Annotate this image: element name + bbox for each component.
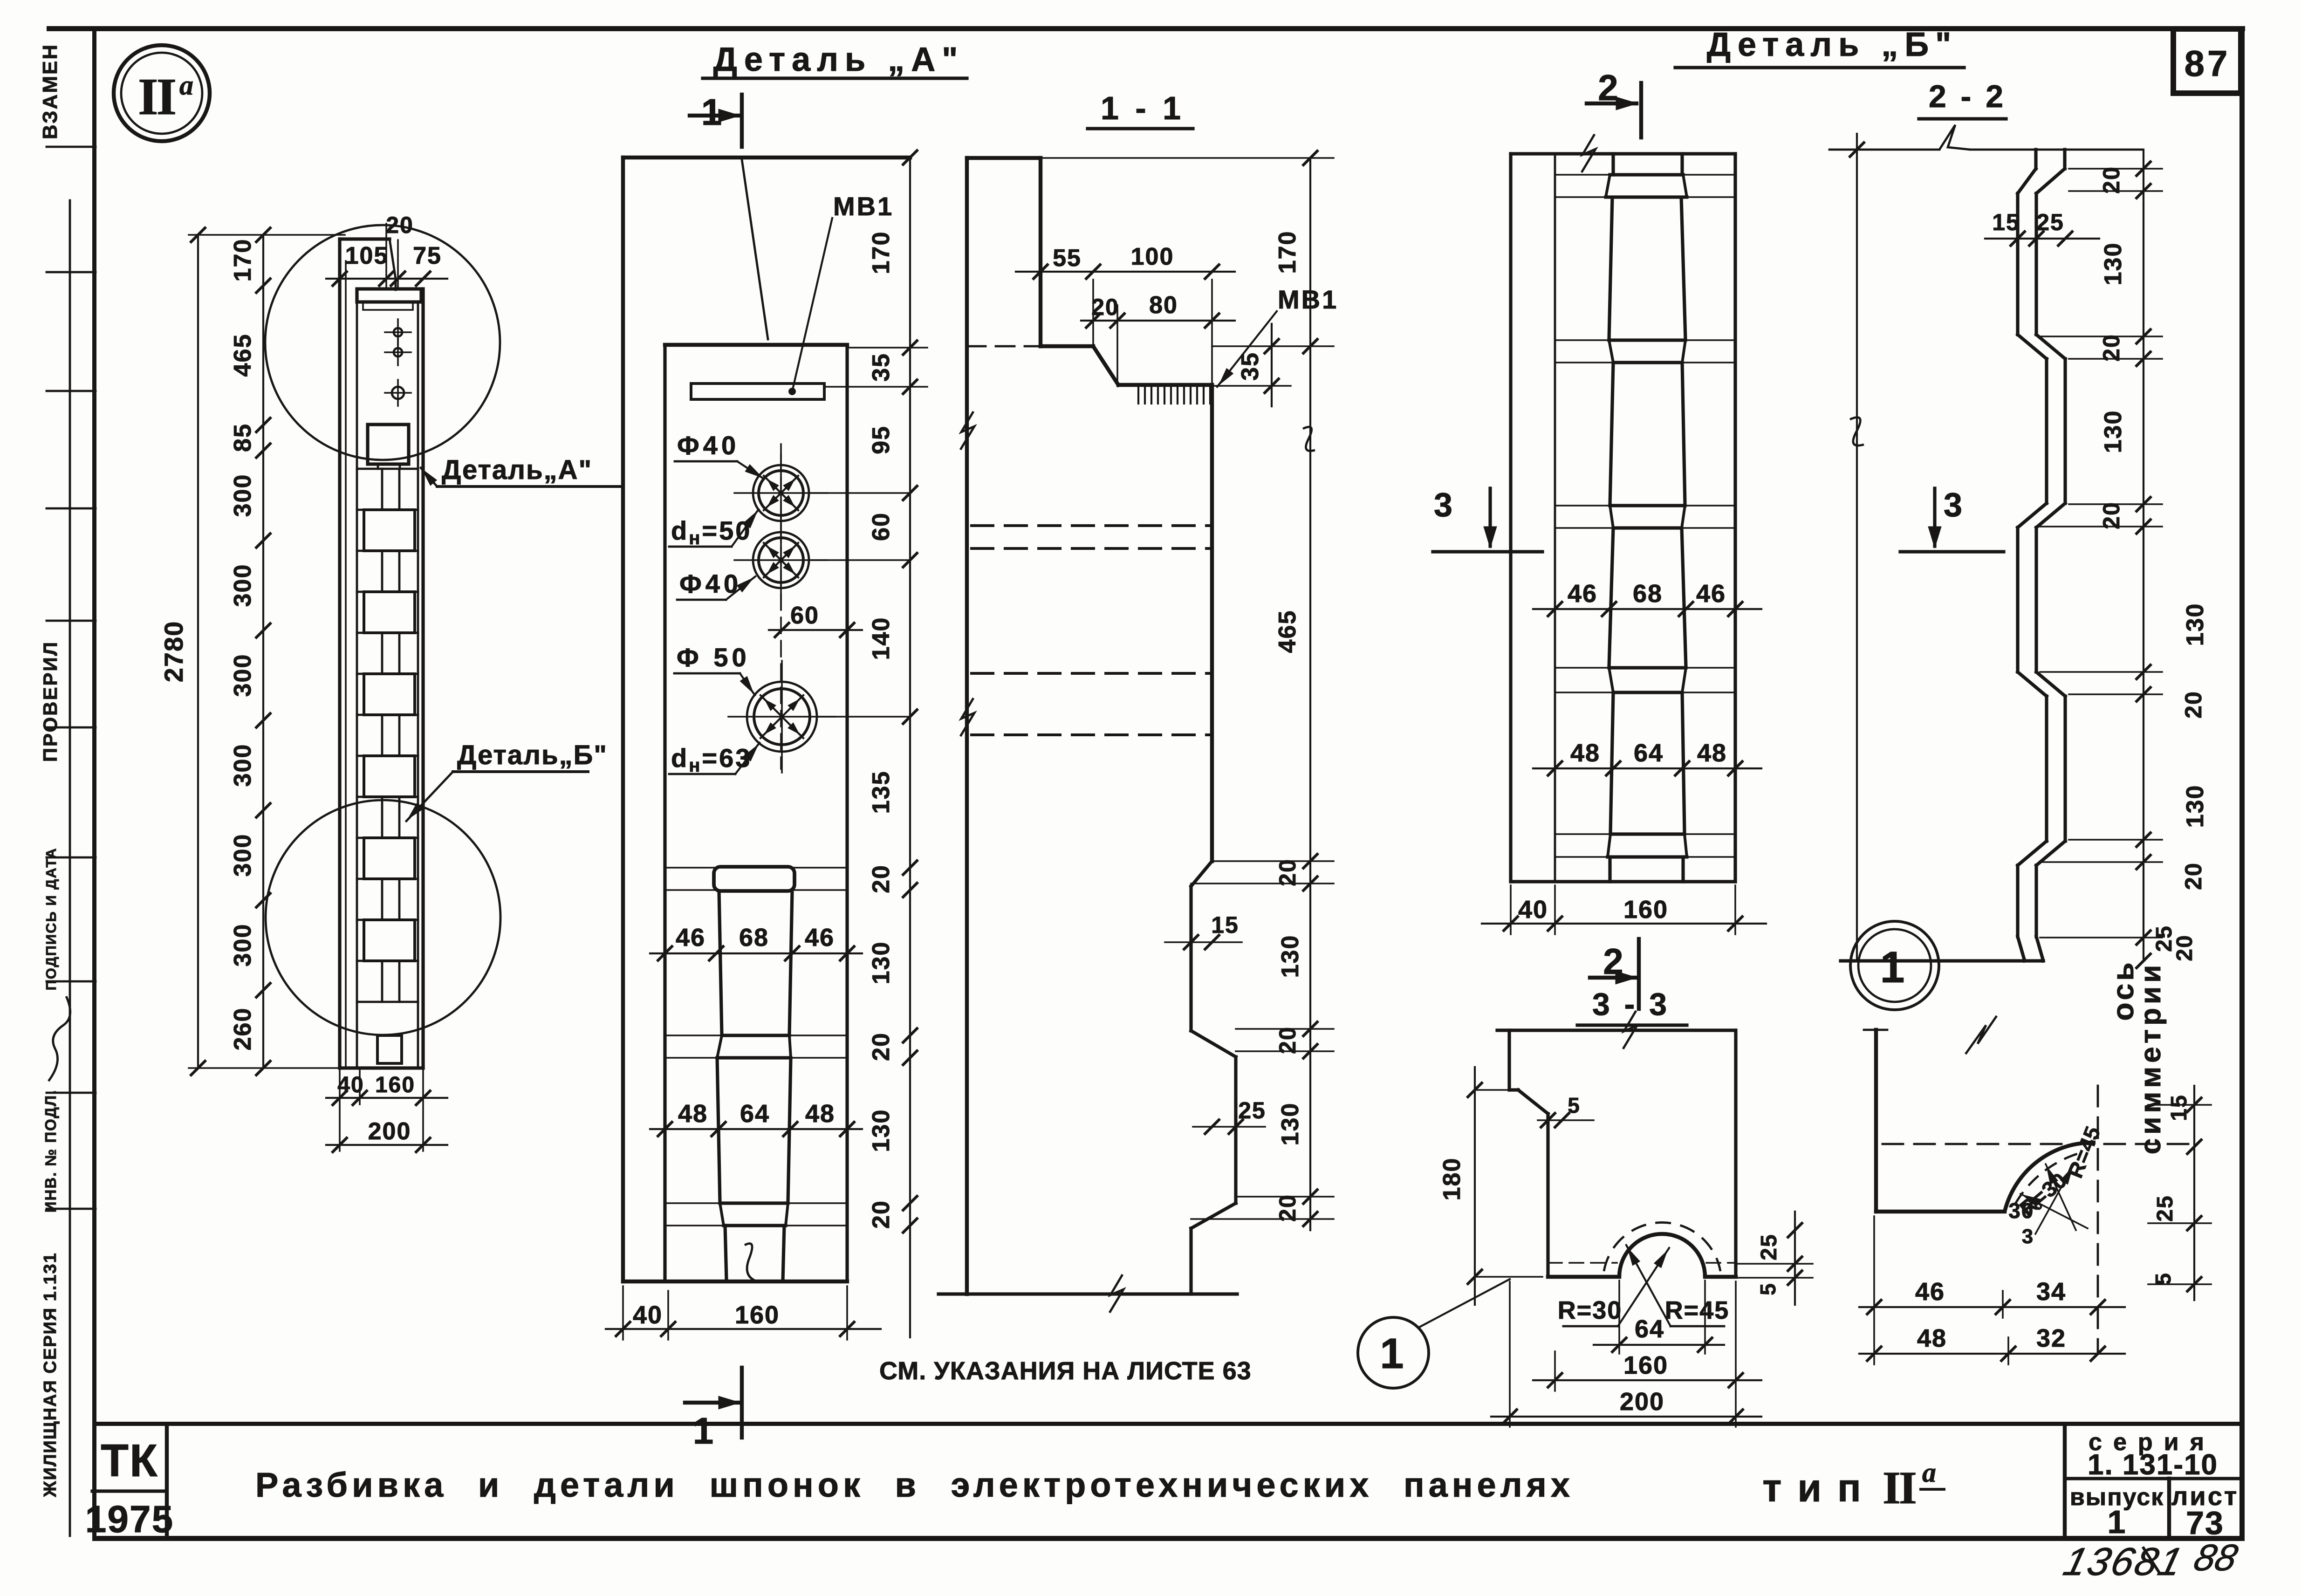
sheet number box 87 <box>2173 29 2241 93</box>
svg-text:МВ1: МВ1 <box>833 192 894 221</box>
svg-text:73: 73 <box>2186 1505 2224 1541</box>
svg-text:2: 2 <box>1603 941 1624 982</box>
svg-text:20: 20 <box>2180 862 2206 890</box>
holes centerline <box>780 454 782 769</box>
svg-text:20: 20 <box>2098 334 2124 362</box>
dim 35 <box>1271 324 1273 406</box>
svg-text:5: 5 <box>2151 1272 2175 1285</box>
svg-text:1975: 1975 <box>85 1498 174 1541</box>
svg-text:180: 180 <box>1438 1158 1466 1201</box>
svg-text:25: 25 <box>2036 209 2064 235</box>
section 1-1 outline <box>965 158 969 1294</box>
svg-text:46: 46 <box>805 924 835 952</box>
bolt holes <box>394 328 402 336</box>
section mark 2 top <box>1587 102 1637 105</box>
zigzag mark <box>1965 1016 1997 1054</box>
svg-text:130: 130 <box>2182 603 2209 646</box>
svg-text:130: 130 <box>1277 1103 1304 1146</box>
profile dims 15 25 <box>1165 941 1242 943</box>
svg-text:Деталь„А": Деталь„А" <box>442 455 592 485</box>
svg-text:35: 35 <box>868 353 895 382</box>
svg-text:300: 300 <box>229 564 256 607</box>
svg-text:34: 34 <box>2036 1278 2066 1306</box>
key top block <box>368 425 409 464</box>
Detail B key chain <box>1555 174 1735 176</box>
svg-text:13681: 13681 <box>2059 1540 2188 1584</box>
svg-text:48: 48 <box>1697 739 1727 767</box>
Detail B outline <box>1509 154 1512 882</box>
dims top 105 20 75 <box>326 278 447 280</box>
svg-text:130: 130 <box>868 941 895 985</box>
svg-text:200: 200 <box>368 1118 411 1145</box>
svg-text:1: 1 <box>701 91 723 133</box>
svg-text:40: 40 <box>633 1301 663 1329</box>
svg-text:20: 20 <box>2172 934 2197 961</box>
svg-text:64: 64 <box>1635 1315 1664 1343</box>
right dim chain Detail A <box>909 158 911 1337</box>
detail callout circle A <box>265 225 500 460</box>
svg-text:300: 300 <box>229 834 256 877</box>
hidden dashed lines <box>972 524 1212 527</box>
circled 1 (double ring) <box>1850 921 1939 1010</box>
svg-text:135: 135 <box>868 771 895 814</box>
left margin form strip <box>69 200 71 1536</box>
detail callout circle B <box>266 800 500 1035</box>
svg-text:170: 170 <box>229 239 256 282</box>
panel top key cap <box>357 289 421 302</box>
svg-text:300: 300 <box>229 474 256 517</box>
svg-text:55: 55 <box>1053 245 1082 272</box>
series box <box>2063 1424 2067 1538</box>
svg-text:3: 3 <box>1434 486 1453 524</box>
corner detail outline <box>1864 1029 1887 1031</box>
svg-text:80: 80 <box>1149 292 1178 319</box>
keyed edge profile 2-2 <box>2034 150 2037 169</box>
dims bottom 40 160 200 <box>326 1097 447 1099</box>
svg-text:170: 170 <box>868 231 895 274</box>
svg-text:46: 46 <box>676 924 705 952</box>
svg-text:260: 260 <box>229 1007 256 1051</box>
marker circle IIa <box>114 45 210 141</box>
svg-text:130: 130 <box>1277 935 1304 978</box>
svg-text:15: 15 <box>2167 1094 2191 1121</box>
svg-text:87: 87 <box>2185 43 2231 84</box>
svg-text:1 - 1: 1 - 1 <box>1101 90 1185 126</box>
svg-text:1: 1 <box>693 1410 715 1452</box>
svg-text:ТК: ТК <box>101 1435 158 1486</box>
svg-text:20: 20 <box>868 864 895 893</box>
svg-text:Деталь „А": Деталь „А" <box>713 41 965 78</box>
overall dim 2780 <box>197 235 199 1068</box>
svg-text:20: 20 <box>1274 858 1301 886</box>
dims 55 100 <box>1016 271 1235 273</box>
svg-text:II: II <box>138 68 175 126</box>
svg-text:68: 68 <box>1633 580 1663 608</box>
svg-text:48: 48 <box>805 1100 835 1128</box>
svg-text:46: 46 <box>1915 1278 1945 1306</box>
svg-text:Ф40: Ф40 <box>677 431 740 460</box>
svg-text:46: 46 <box>1696 580 1726 608</box>
Detail A outline <box>621 158 625 1281</box>
left extension line <box>1856 134 1858 961</box>
svg-text:a: a <box>179 70 193 101</box>
svg-text:160: 160 <box>735 1301 780 1329</box>
svg-text:3: 3 <box>1944 486 1963 524</box>
svg-text:48: 48 <box>1570 739 1600 767</box>
ext lines to chain <box>1212 860 1334 862</box>
svg-text:20: 20 <box>2098 501 2124 529</box>
svg-text:85: 85 <box>229 423 256 452</box>
svg-text:ПОДПИСЬ И ДАТА: ПОДПИСЬ И ДАТА <box>43 847 59 990</box>
svg-text:130: 130 <box>868 1109 895 1152</box>
callout circle 1 <box>1358 1317 1429 1388</box>
right dim chain 2-2 <box>2143 150 2144 961</box>
svg-text:170: 170 <box>1274 231 1301 274</box>
svg-text:R=30: R=30 <box>1558 1296 1623 1324</box>
svg-text:75: 75 <box>413 242 442 269</box>
svg-text:160: 160 <box>1623 1351 1668 1379</box>
svg-text:СМ. УКАЗАНИЯ НА ЛИСТЕ 63: СМ. УКАЗАНИЯ НА ЛИСТЕ 63 <box>879 1357 1252 1385</box>
dims 46 34 / 48 32 <box>1859 1306 2125 1308</box>
svg-text:48: 48 <box>1917 1324 1947 1352</box>
svg-text:a: a <box>1922 1457 1936 1488</box>
sheet frame <box>47 26 2245 31</box>
svg-text:160: 160 <box>375 1073 415 1097</box>
svg-text:48: 48 <box>678 1100 708 1128</box>
svg-text:200: 200 <box>1620 1388 1664 1416</box>
svg-text:25: 25 <box>1757 1233 1781 1260</box>
svg-text:20: 20 <box>2098 166 2124 194</box>
svg-text:46: 46 <box>1568 580 1597 608</box>
hole center extension lines <box>811 492 910 494</box>
section 3-3 outline <box>1497 1028 1735 1032</box>
svg-text:35: 35 <box>1237 352 1264 381</box>
svg-text:1: 1 <box>2108 1504 2127 1540</box>
svg-text:20: 20 <box>1274 1194 1301 1222</box>
svg-text:симметрии: симметрии <box>2135 961 2167 1154</box>
svg-text:300: 300 <box>229 654 256 697</box>
section mark 1 bottom <box>740 1368 744 1438</box>
svg-text:32: 32 <box>2036 1324 2066 1352</box>
svg-text:140: 140 <box>868 617 895 660</box>
svg-text:Разбивка и детали шпонок в: Разбивка и детали шпонок в электротехнич… <box>255 1466 1574 1504</box>
svg-text:130: 130 <box>2182 785 2209 828</box>
svg-text:3: 3 <box>2022 1225 2034 1248</box>
handwritten numbers <box>2059 1540 2188 1584</box>
svg-text:Деталь „Б": Деталь „Б" <box>1707 26 1958 63</box>
svg-text:dн=50: dн=50 <box>671 516 752 548</box>
svg-text:ВЗАМЕН: ВЗАМЕН <box>39 43 62 139</box>
svg-text:20: 20 <box>868 1200 895 1229</box>
svg-text:40: 40 <box>1518 896 1548 924</box>
svg-text:1: 1 <box>1880 943 1906 992</box>
svg-text:95: 95 <box>868 425 895 454</box>
svg-text:ИНВ. № ПОДЛ.: ИНВ. № ПОДЛ. <box>42 1089 59 1212</box>
svg-text:300: 300 <box>229 744 256 787</box>
svg-text:465: 465 <box>229 334 256 377</box>
dims 20 80 <box>1081 320 1235 322</box>
svg-text:II: II <box>1883 1462 1916 1514</box>
svg-text:60: 60 <box>868 512 895 541</box>
keyed chain pattern <box>357 468 418 470</box>
svg-text:15: 15 <box>1992 209 2020 235</box>
dim 180 <box>1474 1067 1476 1305</box>
section 2-2 top edge <box>1829 149 1939 151</box>
svg-text:2 - 2: 2 - 2 <box>1929 79 2006 114</box>
title block TK <box>165 1424 169 1538</box>
svg-text:Ф 50: Ф 50 <box>677 643 750 672</box>
svg-text:160: 160 <box>1623 896 1668 924</box>
svg-text:130: 130 <box>2100 242 2127 286</box>
svg-text:20: 20 <box>386 212 414 238</box>
svg-text:64: 64 <box>740 1100 770 1128</box>
hole circles <box>753 465 809 521</box>
key channel detail A <box>665 867 847 869</box>
dim chain segments <box>262 235 264 1068</box>
svg-text:2780: 2780 <box>159 621 188 683</box>
svg-text:Деталь„Б": Деталь„Б" <box>457 740 608 770</box>
svg-text:20: 20 <box>868 1032 895 1061</box>
svg-text:100: 100 <box>1131 243 1174 270</box>
svg-text:1. 131-10: 1. 131-10 <box>2088 1449 2218 1481</box>
svg-text:68: 68 <box>739 924 769 952</box>
bottom dims Detail A 40 160 <box>606 1328 881 1330</box>
svg-text:dн=63: dн=63 <box>671 743 752 776</box>
right dim chain 1-1 <box>1309 158 1311 1230</box>
svg-text:МВ1: МВ1 <box>1278 285 1338 314</box>
svg-text:2: 2 <box>1598 67 1619 108</box>
bottom dims B 40 160 <box>1482 923 1766 925</box>
svg-text:тип: тип <box>1762 1466 1877 1510</box>
dims 15 25 5 right <box>2193 1086 2195 1300</box>
svg-text:R=45: R=45 <box>1665 1296 1730 1324</box>
svg-text:60: 60 <box>790 602 819 629</box>
svg-text:300: 300 <box>229 924 256 967</box>
svg-text:ЖИЛИЩНАЯ СЕРИЯ 1.131: ЖИЛИЩНАЯ СЕРИЯ 1.131 <box>41 1252 60 1498</box>
svg-text:25: 25 <box>1238 1097 1266 1123</box>
svg-text:20: 20 <box>1274 1026 1301 1054</box>
svg-text:20: 20 <box>2180 691 2206 719</box>
dims 15 25 (2-2) <box>1985 238 2099 240</box>
dims right 25 5 <box>1794 1212 1796 1305</box>
svg-text:105: 105 <box>345 242 389 269</box>
anchor plate hatch <box>1137 386 1139 404</box>
section mark 1 top <box>690 114 739 117</box>
svg-text:5: 5 <box>1756 1282 1780 1295</box>
view: panel elevation (left) <box>338 239 341 1068</box>
section mark 2 bottom <box>1637 939 1641 1009</box>
svg-text:465: 465 <box>1274 610 1301 653</box>
MB1 plate <box>691 384 824 399</box>
svg-text:1: 1 <box>1380 1330 1404 1377</box>
svg-text:64: 64 <box>1634 739 1664 767</box>
svg-text:20: 20 <box>1091 294 1119 320</box>
svg-text:130: 130 <box>2100 410 2127 453</box>
svg-text:25: 25 <box>2153 1195 2178 1221</box>
svg-text:ПРОВЕРИЛ: ПРОВЕРИЛ <box>39 641 61 762</box>
svg-text:15: 15 <box>1211 912 1239 938</box>
svg-text:3 - 3: 3 - 3 <box>1592 986 1670 1022</box>
